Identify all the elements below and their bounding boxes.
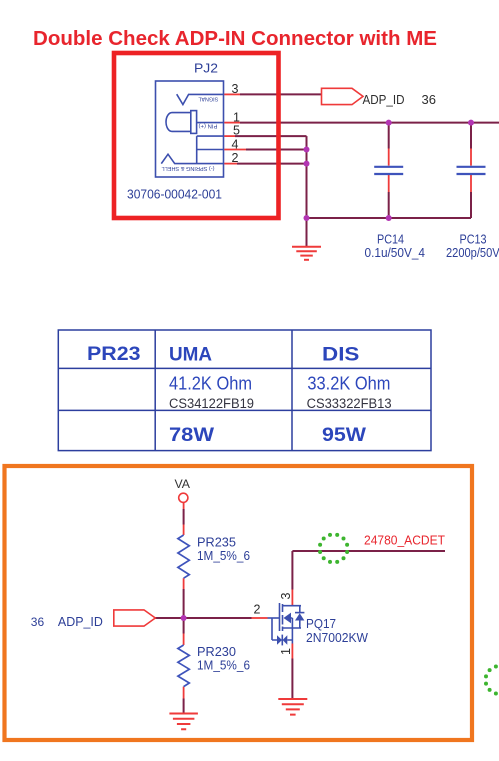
- svg-text:78W: 78W: [169, 425, 214, 446]
- svg-text:2N7002KW: 2N7002KW: [306, 631, 368, 645]
- svg-text:1M_5%_6: 1M_5%_6: [197, 549, 250, 563]
- svg-text:CS34122FB19: CS34122FB19: [169, 396, 254, 411]
- svg-text:ADP_ID: ADP_ID: [363, 92, 405, 107]
- svg-text:24780_ACDET: 24780_ACDET: [364, 533, 445, 547]
- svg-text:PR23: PR23: [87, 344, 141, 365]
- svg-text:PC14: PC14: [377, 233, 404, 247]
- svg-text:PR235: PR235: [197, 536, 236, 550]
- svg-text:2200p/50V_4: 2200p/50V_4: [446, 246, 499, 260]
- svg-text:PC13: PC13: [460, 233, 487, 247]
- svg-text:2: 2: [254, 603, 261, 617]
- svg-text:UMA: UMA: [169, 344, 212, 365]
- svg-text:(-) SPRING & SHELL: (-) SPRING & SHELL: [161, 165, 214, 171]
- svg-text:DIS: DIS: [322, 344, 359, 365]
- svg-text:PR230: PR230: [197, 645, 236, 659]
- svg-text:1: 1: [279, 648, 293, 655]
- svg-text:Double Check ADP-IN Connector: Double Check ADP-IN Connector with ME: [33, 27, 437, 50]
- svg-text:41.2K Ohm: 41.2K Ohm: [169, 372, 252, 393]
- svg-text:95W: 95W: [322, 425, 366, 446]
- svg-text:36: 36: [422, 92, 436, 107]
- svg-text:SIGNAL: SIGNAL: [198, 96, 218, 102]
- svg-text:3: 3: [279, 592, 293, 599]
- svg-text:30706-00042-001: 30706-00042-001: [127, 186, 222, 201]
- svg-text:1M_5%_6: 1M_5%_6: [197, 659, 250, 673]
- svg-text:PJ2: PJ2: [194, 61, 218, 76]
- svg-text:CS33322FB13: CS33322FB13: [307, 396, 392, 411]
- svg-text:PQ17: PQ17: [306, 617, 336, 631]
- svg-text:VA: VA: [175, 479, 191, 491]
- svg-text:PIN (+): PIN (+): [198, 122, 217, 128]
- svg-text:33.2K Ohm: 33.2K Ohm: [307, 372, 390, 393]
- svg-text:36: 36: [31, 615, 45, 629]
- svg-text:0.1u/50V_4: 0.1u/50V_4: [365, 246, 426, 260]
- svg-text:ADP_ID: ADP_ID: [58, 615, 103, 629]
